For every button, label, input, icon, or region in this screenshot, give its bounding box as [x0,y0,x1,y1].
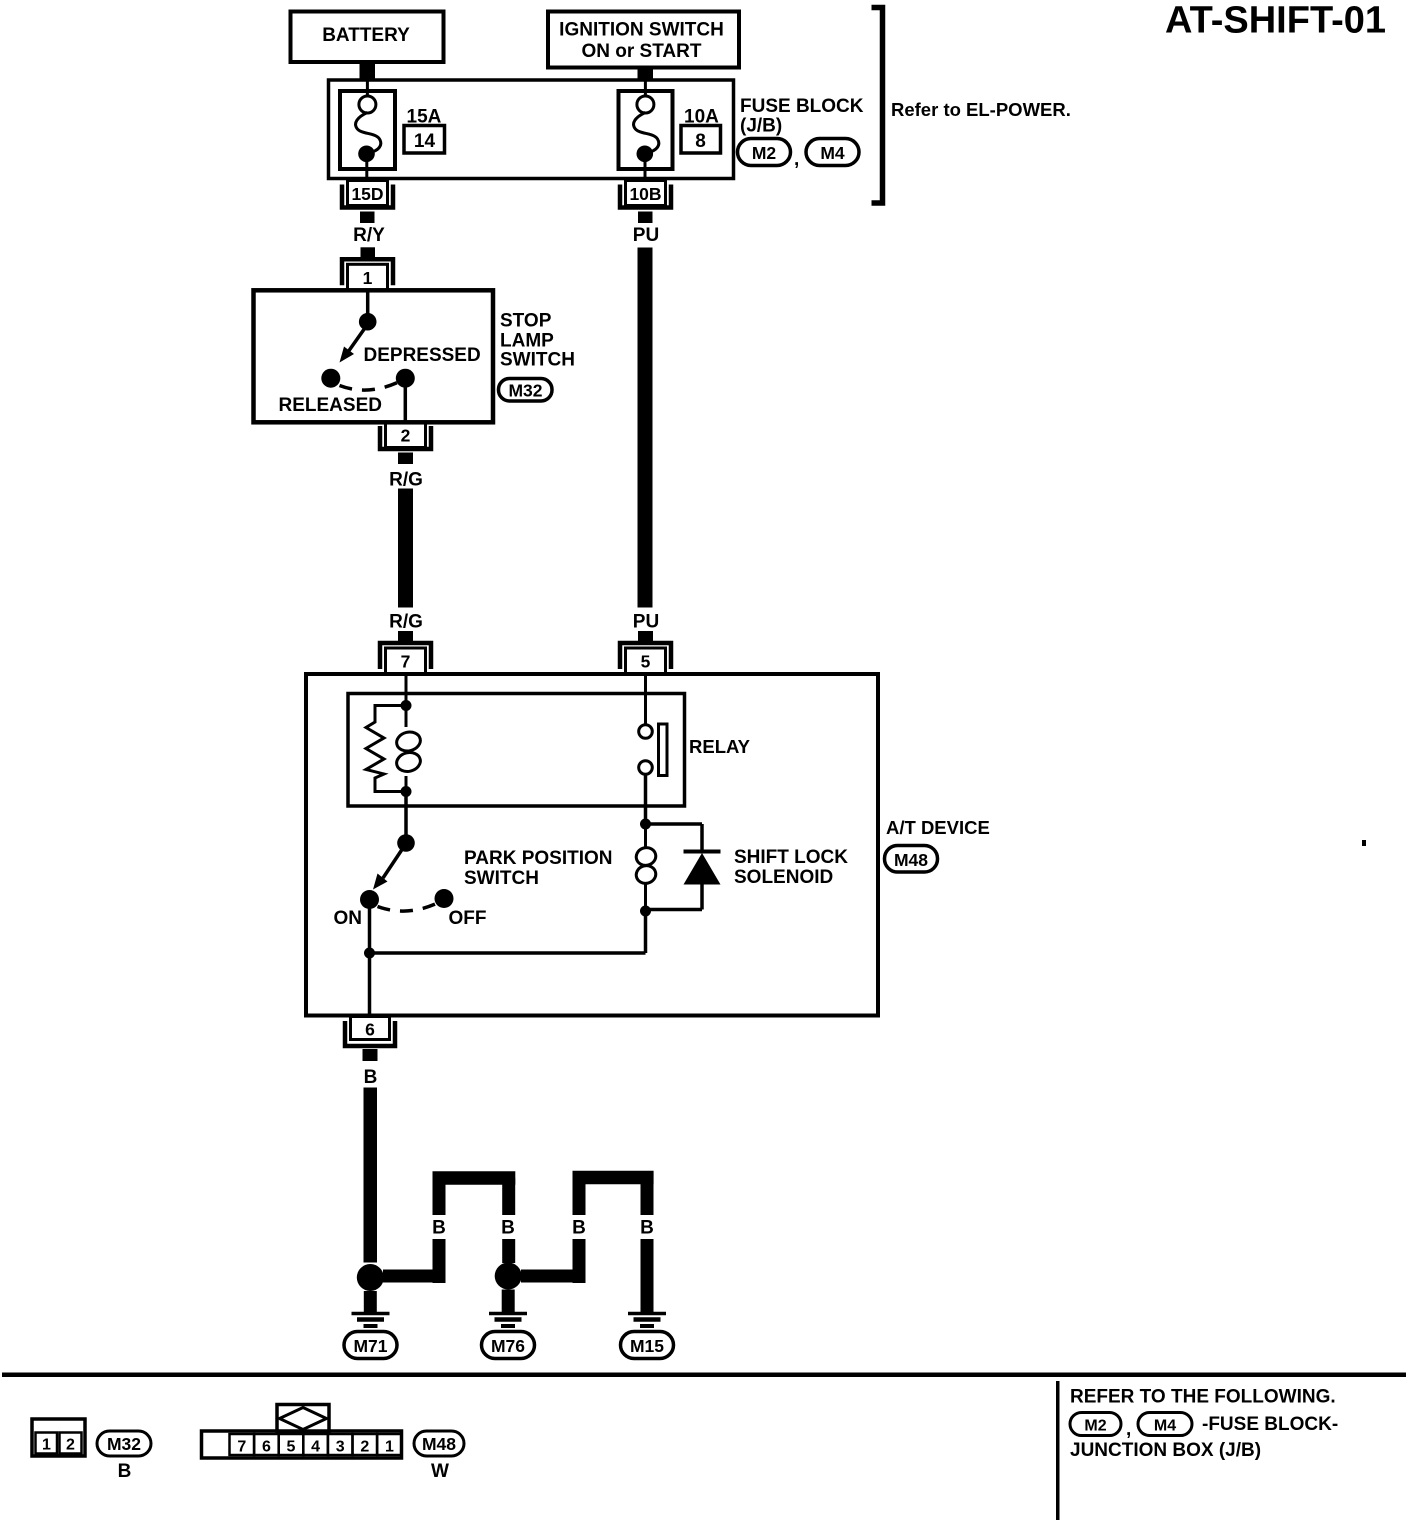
ground M76 [482,1314,535,1359]
junction relay coil bottom [401,786,412,797]
wire ON to junction [368,908,372,953]
legend divider vertical [1056,1381,1060,1520]
wire R/G vertical [398,489,413,608]
svg-text:AT-SHIFT-01: AT-SHIFT-01 [1165,0,1386,42]
svg-text:-FUSE BLOCK-: -FUSE BLOCK- [1202,1414,1338,1435]
svg-text:8: 8 [695,131,706,152]
svg-text:4: 4 [311,1439,320,1456]
svg-text:M2: M2 [1084,1418,1106,1435]
svg-text:M2: M2 [752,143,777,163]
svg-text:R/G: R/G [389,470,423,491]
legend connector M48 pinout [202,1431,402,1458]
svg-text:2: 2 [401,426,411,446]
svg-text:BATTERY: BATTERY [322,25,410,46]
svg-text:15D: 15D [351,184,383,204]
ground M15 [621,1314,674,1359]
wire junction to pin6 [368,953,372,1015]
svg-text:R/G: R/G [389,612,423,633]
relay contact lower [639,761,653,775]
svg-text:2: 2 [360,1439,369,1456]
svg-text:PU: PU [633,612,659,633]
junction relay coil top [401,700,412,711]
svg-text:RELEASED: RELEASED [279,395,382,416]
svg-text:M76: M76 [491,1336,525,1356]
park switch pivot [397,834,415,852]
svg-text:PU: PU [633,225,659,246]
svg-text:Refer to EL-POWER.: Refer to EL-POWER. [891,99,1071,120]
page divider [2,1373,1406,1378]
splice loop 1 [433,1178,516,1283]
wire pin5 to relay contact [644,674,647,725]
svg-text:SHIFT LOCK: SHIFT LOCK [734,847,848,868]
svg-text:PARK POSITION: PARK POSITION [464,848,613,869]
svg-text:10B: 10B [629,184,661,204]
svg-text:IGNITION SWITCH: IGNITION SWITCH [559,20,724,41]
wire pin7 to relay [405,674,408,705]
svg-text:M4: M4 [1154,1418,1176,1435]
ground junction M71 [357,1264,384,1291]
svg-text:M48: M48 [422,1434,456,1454]
note M4 oval [1138,1413,1192,1436]
connector 6 [345,1017,395,1062]
svg-text:1: 1 [42,1437,51,1454]
wire battery to fuse block [360,62,376,81]
svg-text:R/Y: R/Y [353,225,385,246]
A/T device box [306,674,878,1016]
svg-text:ON or START: ON or START [582,41,702,62]
relay coil [395,706,423,792]
park switch arm [373,848,403,890]
svg-text:1: 1 [385,1439,394,1456]
svg-text:B: B [572,1218,586,1239]
svg-text:(J/B): (J/B) [740,116,782,137]
label FUSE BLOCK (J/B) [740,96,864,137]
svg-text:M4: M4 [820,143,845,163]
svg-text:SOLENOID: SOLENOID [734,867,833,888]
connector 5 [620,631,671,674]
note M2 oval [1070,1413,1121,1436]
wire B main [364,1088,378,1263]
svg-text:M15: M15 [630,1336,664,1356]
svg-text:M48: M48 [894,850,928,870]
svg-text:OFF: OFF [449,908,487,929]
connector M48 [885,846,938,873]
legend connector M32 pinout [32,1419,85,1456]
svg-text:,: , [1126,1419,1131,1440]
relay resistor [366,706,406,792]
svg-text:2: 2 [66,1437,75,1454]
svg-text:B: B [501,1218,515,1239]
contact depressed [396,369,415,388]
svg-text:REFER TO THE FOLLOWING.: REFER TO THE FOLLOWING. [1070,1387,1336,1408]
svg-text:,: , [794,149,799,170]
switch arm [340,327,367,363]
wire depressed to pin2 [404,388,408,422]
svg-text:A/T DEVICE: A/T DEVICE [886,817,990,838]
connector 2 [380,422,431,464]
svg-text:LAMP: LAMP [500,331,554,352]
svg-text:SWITCH: SWITCH [500,350,575,371]
diode [646,824,721,910]
connector 1 [342,247,393,290]
svg-text:SWITCH: SWITCH [464,868,539,889]
labels B row [364,1218,654,1239]
wire M76 to ground [502,1290,515,1313]
svg-text:DEPRESSED: DEPRESSED [364,345,481,366]
switch pivot [359,313,377,331]
svg-text:B: B [432,1218,446,1239]
svg-text:M71: M71 [353,1336,387,1356]
junction park [364,948,375,959]
wire junction to solenoid [370,911,646,953]
fuse F8 10A [619,80,673,180]
svg-text:7: 7 [237,1439,246,1456]
legend connector M48 diamond [277,1405,329,1432]
contact OFF [435,889,454,908]
label PARK POSITION SWITCH [464,848,613,889]
contact released [321,369,340,388]
svg-text:5: 5 [641,652,651,672]
connector M32 [499,379,553,402]
svg-text:B: B [640,1218,654,1239]
label SHIFT LOCK SOLENOID [734,847,848,888]
relay contact upper [639,725,653,739]
svg-text:1: 1 [363,268,373,288]
svg-text:3: 3 [336,1439,345,1456]
connector 15D [342,181,393,224]
battery [291,12,444,63]
svg-text:JUNCTION BOX (J/B): JUNCTION BOX (J/B) [1070,1440,1261,1461]
wire M71 jog [383,1270,446,1283]
legend M32 oval [97,1431,151,1456]
svg-text:6: 6 [262,1439,271,1456]
svg-text:M32: M32 [107,1434,141,1454]
label STOP LAMP SWITCH [500,311,575,371]
wire M76 jog [521,1270,585,1283]
connector 10B [620,181,671,224]
connector M2 [738,139,791,166]
artifact mark [1362,840,1366,846]
svg-text:STOP: STOP [500,311,552,332]
dashed arc park switch [378,904,437,912]
junction solenoid top [640,819,651,830]
connector M4 [806,139,859,166]
contact ON [360,890,379,909]
svg-text:M32: M32 [508,381,542,401]
stop lamp switch box [254,290,494,422]
svg-text:5: 5 [287,1439,296,1456]
wire pin1 to pivot [366,290,370,315]
splice loop 2 [573,1178,654,1314]
wire contact to solenoid [644,775,648,825]
wire M71 to ground [364,1291,377,1313]
svg-text:W: W [431,1461,449,1482]
ground M71 [344,1314,397,1359]
wire ignition to fuse block [638,68,654,82]
svg-text:ON: ON [334,908,363,929]
svg-text:14: 14 [414,131,436,152]
shift lock solenoid coil [635,824,658,911]
fuse number box 14 [404,126,445,154]
svg-text:RELAY: RELAY [689,736,751,757]
wire coil to park switch [404,792,408,837]
relay box [348,694,685,807]
svg-text:7: 7 [401,652,411,672]
svg-text:B: B [364,1218,378,1239]
svg-text:B: B [364,1067,378,1088]
junction solenoid bottom [640,906,651,917]
ground junction M76 [495,1263,522,1290]
svg-text:B: B [118,1461,132,1482]
relay contact bar [659,724,668,776]
fuse number box 8 [681,126,721,154]
fuse block J/B box [329,80,734,179]
ignition switch [548,12,739,68]
bracket refer [872,8,883,204]
svg-text:6: 6 [365,1020,375,1040]
wire PU vertical [638,248,653,608]
dashed throw arc [340,383,398,391]
connector 7 [380,631,431,674]
fuse F14 15A [340,80,395,180]
legend M48 oval [414,1431,464,1456]
svg-text:FUSE BLOCK: FUSE BLOCK [740,96,864,117]
